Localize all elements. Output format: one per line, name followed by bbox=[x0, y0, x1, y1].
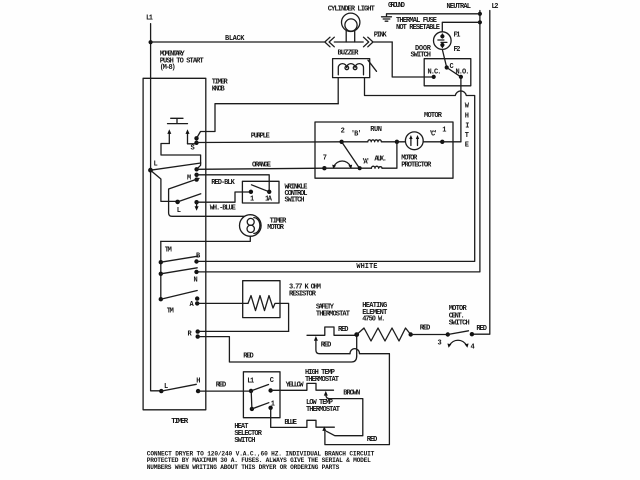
svg-text:RED: RED bbox=[476, 325, 487, 333]
svg-text:GROUND: GROUND bbox=[388, 2, 405, 10]
heating element bbox=[338, 302, 448, 341]
motor terminal 2 bbox=[339, 127, 361, 144]
blade TM-A bbox=[161, 291, 197, 300]
svg-text:L: L bbox=[164, 383, 168, 391]
svg-text:1: 1 bbox=[442, 127, 446, 135]
terminal N bbox=[194, 270, 199, 285]
junction run-aux bbox=[395, 140, 399, 144]
wire ORANGE bbox=[197, 162, 325, 170]
svg-text:4750 W.: 4750 W. bbox=[362, 316, 385, 324]
svg-text:N.O.: N.O. bbox=[456, 68, 470, 76]
terminal M bbox=[187, 167, 199, 182]
svg-text:RUN: RUN bbox=[370, 126, 382, 134]
svg-text:N: N bbox=[194, 276, 198, 284]
junction neutral-ground bbox=[478, 12, 482, 16]
svg-text:S: S bbox=[191, 145, 195, 153]
terminal W with arrow bbox=[194, 200, 198, 211]
motor box bbox=[315, 112, 453, 178]
svg-text:E: E bbox=[465, 142, 469, 150]
terminal L main bbox=[148, 161, 158, 173]
blade TM to M and drop to timer motor bbox=[169, 178, 245, 216]
wire A to resistor bbox=[197, 302, 248, 304]
terminal B bbox=[194, 252, 201, 263]
svg-text:NEUTRAL: NEUTRAL bbox=[447, 3, 472, 11]
svg-text:WHITE: WHITE bbox=[356, 263, 377, 271]
disconnect chevron left bbox=[325, 37, 363, 47]
svg-text:RED: RED bbox=[216, 381, 227, 389]
svg-text:4: 4 bbox=[471, 343, 475, 351]
centrifugal arc in motor bbox=[332, 161, 352, 169]
safety thermostat bbox=[307, 304, 357, 354]
svg-text:MOTOR: MOTOR bbox=[267, 224, 284, 232]
timer box bbox=[143, 78, 228, 426]
svg-text:PURPLE: PURPLE bbox=[251, 132, 270, 140]
node NEUTRAL bbox=[447, 3, 472, 11]
timer motor bbox=[240, 215, 288, 237]
svg-text:H: H bbox=[196, 377, 200, 385]
wire YELLOW and high temp thermostat bbox=[271, 369, 363, 436]
wire WHITE B to door switch leg bbox=[197, 78, 475, 271]
label MOMENTARY PUSH TO START (M-8) bbox=[160, 50, 204, 72]
motor protector bbox=[397, 132, 442, 169]
svg-text:NOT RESETABLE: NOT RESETABLE bbox=[396, 24, 440, 32]
lower pivot blade bbox=[175, 194, 201, 215]
svg-text:'B': 'B' bbox=[351, 131, 362, 139]
motor centrifugal switch bbox=[438, 305, 487, 351]
svg-text:NUMBERS WHEN WRITING ABOUT THI: NUMBERS WHEN WRITING ABOUT THIS DRYER OR… bbox=[147, 464, 340, 471]
svg-text:H: H bbox=[465, 113, 469, 121]
run winding bbox=[342, 126, 397, 142]
heat selector switch bbox=[234, 372, 280, 445]
svg-text:PINK: PINK bbox=[374, 31, 388, 39]
svg-text:3: 3 bbox=[438, 339, 442, 347]
terminal S bbox=[188, 136, 199, 152]
wire L to lower pivot bbox=[151, 170, 178, 201]
svg-text:SWITCH: SWITCH bbox=[449, 320, 470, 328]
contact C and blade bbox=[445, 63, 461, 77]
svg-text:SWITCH: SWITCH bbox=[285, 196, 305, 204]
svg-text:RESISTOR: RESISTOR bbox=[289, 291, 317, 299]
resistor bbox=[243, 281, 321, 332]
note text bbox=[147, 450, 375, 471]
svg-text:RED: RED bbox=[338, 326, 349, 334]
svg-text:RED-BLK: RED-BLK bbox=[211, 179, 235, 187]
svg-text:TM: TM bbox=[167, 307, 174, 315]
door switch box bbox=[411, 45, 471, 86]
svg-text:T: T bbox=[465, 132, 469, 140]
svg-text:1: 1 bbox=[250, 195, 254, 203]
svg-text:1: 1 bbox=[271, 400, 275, 408]
motor terminal 7 bbox=[322, 155, 327, 171]
node L2 bbox=[492, 3, 499, 11]
wire PINK to door switch N.C. bbox=[374, 31, 434, 77]
svg-text:BROWN: BROWN bbox=[343, 389, 360, 397]
contact N.O. bbox=[456, 68, 470, 79]
wire RED-BLK bbox=[197, 175, 270, 192]
svg-text:BLUE: BLUE bbox=[284, 419, 297, 427]
svg-text:MOTOR: MOTOR bbox=[424, 112, 443, 120]
svg-text:TIMER: TIMER bbox=[171, 418, 188, 426]
wrinkle control switch bbox=[242, 181, 307, 204]
svg-text:BUZZER: BUZZER bbox=[338, 49, 360, 57]
aux winding bbox=[324, 142, 397, 170]
svg-text:7: 7 bbox=[323, 155, 327, 163]
wire S to buzzer bbox=[197, 104, 339, 139]
blade TM-B bbox=[161, 256, 198, 262]
terminal A bbox=[190, 296, 200, 309]
svg-text:L: L bbox=[154, 161, 158, 169]
svg-text:N.C.: N.C. bbox=[428, 68, 442, 76]
ground bbox=[382, 2, 480, 21]
buzzer bbox=[333, 49, 377, 103]
contact N.C. bbox=[428, 68, 442, 79]
junction hop at heater bbox=[350, 335, 389, 356]
wire N.O. drop to motor bbox=[460, 77, 462, 142]
wire timer motor bottom to TM bracket bbox=[161, 236, 251, 241]
svg-text:ORANGE: ORANGE bbox=[252, 162, 271, 170]
wire NEUTRAL bus bbox=[197, 11, 480, 272]
svg-text:1A: 1A bbox=[265, 195, 273, 203]
label WHITE vertical bbox=[465, 103, 470, 150]
wire R lower red bbox=[198, 337, 357, 362]
wire L1 drop bbox=[151, 24, 162, 391]
svg-text:PROTECTOR: PROTECTOR bbox=[401, 161, 432, 169]
svg-text:I: I bbox=[465, 123, 469, 131]
wire L2 bus bbox=[472, 11, 490, 335]
svg-text:THERMOSTAT: THERMOSTAT bbox=[316, 311, 350, 319]
blade L to M bbox=[151, 163, 201, 170]
motor terminal 1 C bbox=[429, 127, 461, 145]
wire R to resistor leg bbox=[198, 330, 289, 332]
wire PURPLE bbox=[197, 132, 342, 142]
contact arrows momentary bbox=[167, 129, 189, 144]
svg-text:L1: L1 bbox=[247, 377, 254, 385]
svg-text:BLACK: BLACK bbox=[225, 35, 245, 43]
svg-text:RED: RED bbox=[243, 352, 254, 360]
junction neutral-fuse bbox=[478, 20, 482, 24]
svg-text:SWITCH: SWITCH bbox=[411, 51, 432, 59]
wire BLACK bbox=[151, 35, 325, 43]
svg-text:C: C bbox=[270, 377, 274, 385]
svg-text:RED: RED bbox=[420, 325, 431, 333]
svg-text:KNOB: KNOB bbox=[212, 85, 226, 93]
svg-text:TM: TM bbox=[165, 247, 172, 255]
wire BLUE and low temp thermostat bbox=[271, 354, 390, 445]
junction L1-BLACK bbox=[149, 40, 153, 44]
svg-text:(M-8): (M-8) bbox=[160, 64, 176, 72]
thermal fuse F1 F2 bbox=[396, 17, 480, 68]
wire RED H to heat selector bbox=[198, 381, 251, 391]
svg-text:'C': 'C' bbox=[429, 131, 438, 139]
lamp CYLINDER LIGHT bbox=[328, 5, 375, 42]
TM bracket bbox=[159, 241, 174, 315]
svg-text:THERMOSTAT: THERMOSTAT bbox=[305, 376, 339, 384]
svg-text:'A': 'A' bbox=[361, 159, 370, 167]
svg-text:AUX.: AUX. bbox=[374, 156, 387, 164]
push-to-start button bbox=[168, 118, 188, 123]
svg-text:L1: L1 bbox=[146, 14, 153, 22]
node L1 bbox=[146, 14, 153, 22]
svg-text:L2: L2 bbox=[492, 3, 499, 11]
timer L-H contact bbox=[159, 377, 200, 393]
svg-text:THERMOSTAT: THERMOSTAT bbox=[306, 406, 340, 414]
svg-text:RED: RED bbox=[321, 341, 332, 349]
svg-text:2: 2 bbox=[341, 127, 345, 135]
svg-text:WH.-BLUE: WH.-BLUE bbox=[210, 204, 236, 212]
svg-text:L: L bbox=[177, 207, 181, 215]
svg-text:SWITCH: SWITCH bbox=[234, 437, 255, 445]
svg-text:RED: RED bbox=[367, 436, 378, 444]
blade TM-N bbox=[161, 268, 197, 274]
terminal R bbox=[188, 329, 200, 338]
svg-text:YELLOW: YELLOW bbox=[286, 381, 305, 389]
svg-text:F1: F1 bbox=[454, 31, 461, 39]
disconnect chevron right bbox=[364, 37, 393, 47]
svg-text:F2: F2 bbox=[454, 46, 461, 54]
svg-text:CYLINDER LIGHT: CYLINDER LIGHT bbox=[328, 5, 375, 13]
wire WH.-BLUE bbox=[197, 192, 251, 212]
wire left arrow to M bbox=[161, 144, 201, 170]
